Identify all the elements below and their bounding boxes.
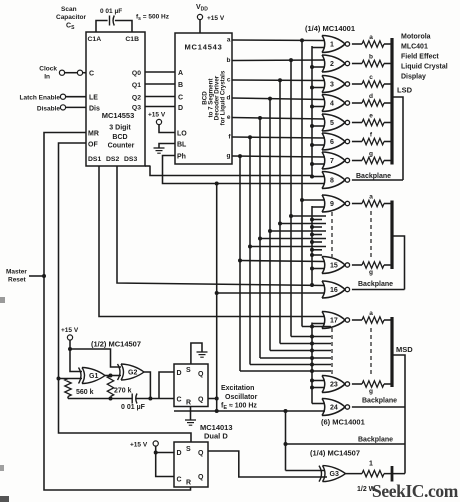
svg-text:D: D — [177, 450, 182, 457]
svg-text:Scan: Scan — [61, 6, 77, 13]
svg-text:Disable: Disable — [37, 106, 61, 113]
wire G1 output — [105, 375, 121, 377]
dashed hidden gates group3 — [331, 328, 333, 376]
wire segment a vertical drop — [301, 40, 303, 326]
wire gate 5 lower input — [312, 125, 325, 127]
svg-text:D: D — [177, 370, 182, 377]
svg-text:DS2: DS2 — [106, 156, 119, 163]
node hidden gate 10 segment — [289, 214, 293, 218]
wire segment e MSD input — [260, 357, 331, 359]
svg-text:3: 3 — [330, 82, 334, 89]
svg-text:DS3: DS3 — [124, 156, 137, 163]
wire gate 5 output — [352, 122, 362, 124]
svg-text:for Liquid Crystals: for Liquid Crystals — [220, 70, 227, 125]
svg-text:Q2: Q2 — [132, 95, 141, 102]
wire disable — [66, 106, 87, 108]
resistor segment g MSD — [362, 381, 384, 387]
wire FF1 R to ground — [190, 407, 192, 421]
node backplane branch — [284, 442, 288, 446]
svg-text:d: d — [369, 93, 373, 100]
XOR gate G2 — [118, 364, 121, 380]
svg-text:Counter: Counter — [108, 143, 135, 150]
svg-text:In: In — [44, 74, 50, 81]
wire DS3 select — [145, 165, 151, 167]
svg-text:+15 V: +15 V — [61, 327, 79, 334]
scan artifact 3 — [0, 496, 9, 502]
wire gate 3 lower input — [312, 87, 325, 89]
wire osc rail — [68, 398, 132, 400]
NOR gate 2 — [322, 55, 325, 72]
svg-text:7: 7 — [330, 158, 334, 165]
flip-flop FF2 box — [174, 442, 208, 487]
scan artifact 2 — [0, 465, 4, 471]
wire segment d vertical drop — [269, 99, 271, 351]
wire segment f vertical drop — [249, 137, 251, 364]
node gate 2 lower input — [310, 65, 314, 69]
svg-text:1: 1 — [369, 461, 373, 468]
wire gate 6 output — [352, 141, 362, 143]
wire BL to ground — [159, 144, 175, 149]
svg-text:Q3: Q3 — [132, 105, 141, 112]
svg-text:C1B: C1B — [125, 36, 139, 43]
node segment a drop — [300, 38, 304, 42]
wire resistor g2 to bus — [384, 264, 392, 266]
svg-text:Ph: Ph — [177, 154, 186, 161]
wire hidden gate 10 segment input — [291, 215, 326, 217]
svg-text:MC14543: MC14543 — [185, 43, 223, 52]
node hidden gate 13 segment — [258, 237, 262, 241]
svg-text:Backplane: Backplane — [362, 398, 397, 405]
wire +15 to node — [69, 340, 71, 349]
resistor 270k — [107, 376, 113, 397]
svg-text:C: C — [177, 477, 182, 484]
wire segment a MSD input — [302, 326, 331, 328]
dashed hidden resistors group2 — [370, 211, 372, 258]
wire MR rail — [44, 133, 191, 491]
resistor segment a MSD — [362, 317, 384, 323]
wire Ph line — [163, 156, 326, 184]
svg-text:2: 2 — [330, 61, 334, 68]
NOR gate 24 — [322, 399, 325, 416]
wire gate 6 lower input — [312, 144, 325, 146]
wire gate 2 lower input — [312, 66, 325, 68]
svg-text:23: 23 — [330, 382, 338, 389]
svg-text:5: 5 — [330, 120, 334, 127]
NOR gate 3 — [322, 76, 325, 93]
svg-text:Liquid Crystal: Liquid Crystal — [401, 64, 448, 71]
osc +15 terminal — [67, 335, 72, 340]
svg-text:Capacitor: Capacitor — [56, 14, 86, 21]
node hidden gate select 2 — [310, 225, 314, 229]
resistor 1 ohm — [362, 470, 384, 476]
wire segment f — [232, 137, 325, 138]
svg-text:c: c — [369, 74, 373, 81]
node excitation to backplane drop — [284, 409, 288, 413]
node segment a MSD select — [310, 325, 314, 329]
svg-text:(1/2) MC14507: (1/2) MC14507 — [91, 340, 141, 349]
resistor segment e LSD — [362, 119, 384, 125]
svg-text:Dual D: Dual D — [204, 432, 228, 441]
ground FF1 S — [197, 351, 208, 353]
svg-text:b: b — [227, 57, 231, 64]
clock terminal 2 — [77, 70, 82, 75]
dashed hidden resistors group3 — [370, 328, 372, 377]
svg-text:a: a — [227, 37, 231, 44]
svg-text:(6) MC14001: (6) MC14001 — [321, 418, 365, 427]
node gate 23 lower input — [310, 386, 314, 390]
wire gate 23 lower input — [312, 387, 325, 389]
wire gate 15 lower input — [312, 268, 325, 270]
wire C1A to capacitor — [96, 21, 108, 33]
node 270k rail — [109, 397, 113, 401]
wire resistor g3 to bus — [384, 383, 392, 385]
node FF1 Qbar — [215, 397, 219, 401]
node gate 23 upper input — [310, 379, 314, 383]
resistor segment a LSD — [362, 41, 384, 47]
svg-text:MLC401: MLC401 — [401, 44, 428, 51]
wire segment b MSD input — [291, 336, 331, 338]
svg-text:R: R — [186, 400, 191, 407]
svg-text:C: C — [89, 71, 94, 78]
decoder U2 MC14543 box — [175, 33, 232, 164]
node hidden gate select 4 — [310, 240, 314, 244]
svg-text:Latch Enable: Latch Enable — [20, 95, 61, 102]
wire G2 output — [144, 372, 150, 399]
svg-text:BCD: BCD — [112, 134, 127, 141]
svg-text:+15 V: +15 V — [148, 112, 166, 119]
svg-text:Master: Master — [6, 269, 27, 276]
svg-text:Backplane: Backplane — [356, 173, 391, 180]
wire OF to G1 lower input — [59, 378, 83, 380]
svg-text:24: 24 — [330, 405, 338, 412]
wire segment b vertical drop — [290, 60, 292, 336]
node hidden gate select 3 — [310, 233, 314, 237]
wire bottom backplane — [286, 443, 406, 445]
node hidden gate select 6 — [310, 253, 314, 257]
svg-text:Field Effect: Field Effect — [401, 54, 439, 61]
wire resistor a3 to bus — [384, 319, 392, 321]
svg-text:a: a — [369, 194, 373, 201]
wire DS1 select — [99, 166, 325, 317]
node DS2 to group2 vertical — [310, 283, 314, 287]
svg-text:LE: LE — [89, 95, 98, 102]
svg-text:C: C — [177, 397, 182, 404]
wire segment e — [232, 118, 325, 120]
node segment b drop — [289, 58, 293, 62]
wire segment f MSD input — [250, 364, 331, 366]
wire segment c vertical drop — [279, 80, 281, 343]
svg-text:e: e — [369, 113, 373, 120]
wire resistor f to bus — [384, 141, 392, 143]
node gate 15 lower input — [310, 267, 314, 271]
svg-text:S: S — [186, 367, 191, 374]
wire resistor b to bus — [384, 63, 392, 65]
wire gate 15 output — [352, 264, 362, 266]
wire gate 7 output — [352, 160, 362, 162]
wire digit2 backplane pointer — [392, 236, 405, 290]
wire segment a — [232, 39, 325, 42]
svg-text:+15 V: +15 V — [207, 15, 225, 22]
NOR gate 6 — [322, 133, 325, 150]
wire hidden gate 13 segment input — [260, 238, 326, 240]
svg-text:g: g — [227, 153, 231, 160]
wire +15 to G1 input — [70, 349, 82, 372]
svg-text:3 Digit: 3 Digit — [109, 125, 131, 132]
wire LSD backplane pointer — [392, 97, 403, 180]
svg-text:LO: LO — [177, 131, 187, 138]
wire gate 2 output — [352, 63, 362, 65]
svg-text:Oscillator: Oscillator — [225, 394, 258, 401]
NOR gate 8 — [322, 172, 325, 189]
wire FF1 S to ground — [191, 343, 202, 364]
svg-text:G2: G2 — [128, 370, 137, 377]
node G2 cap junction — [148, 397, 152, 401]
wire segment e vertical drop — [259, 118, 261, 358]
NOR gate 5 — [322, 114, 325, 131]
svg-text:g: g — [369, 388, 373, 395]
scan artifact 1 — [0, 297, 5, 303]
svg-text:Q: Q — [198, 450, 204, 457]
wire gate 4 lower input — [312, 106, 325, 108]
svg-text:DS1: DS1 — [88, 156, 101, 163]
digit2 segment bus — [390, 201, 393, 270]
wire gate 17 output — [352, 319, 362, 321]
wire resistor to backplane corner — [384, 473, 405, 475]
svg-text:Reset: Reset — [8, 277, 27, 284]
node master reset — [42, 274, 46, 278]
svg-text:Q1: Q1 — [132, 82, 141, 89]
svg-text:15: 15 — [330, 263, 338, 270]
resistor segment c LSD — [362, 81, 384, 87]
svg-text:Q: Q — [198, 474, 204, 481]
NOR gate 4 — [322, 95, 325, 112]
wire hidden gate select stub 1 — [312, 219, 322, 221]
wire Q3-D — [145, 106, 175, 108]
wire gate 9 lower input — [312, 206, 325, 208]
wire gate 17 lower input — [312, 323, 325, 325]
svg-text:Q: Q — [198, 397, 204, 404]
svg-text:A: A — [178, 70, 183, 77]
LO terminal — [156, 119, 161, 124]
wire Q0-A — [145, 71, 175, 73]
FF2 +15 terminal — [153, 441, 158, 446]
flip-flop FF1 box — [174, 364, 208, 407]
wire hidden gate 12 segment input — [270, 230, 326, 232]
VDD terminal — [197, 14, 202, 19]
wire segment g MSD input — [240, 370, 331, 372]
node gate 8 upper input — [310, 175, 314, 179]
MSD segment bus — [390, 317, 393, 387]
svg-text:(1/4) MC14507: (1/4) MC14507 — [310, 449, 360, 458]
svg-text:BL: BL — [177, 142, 187, 149]
node FF2 +15 — [154, 451, 158, 455]
node Ph to gate 16 — [215, 291, 219, 295]
node segment c drop — [278, 78, 282, 82]
node segment b MSD select — [310, 335, 314, 339]
wire latch enable — [66, 96, 87, 98]
latch terminal — [60, 94, 65, 99]
wire hidden gate select stub 4 — [312, 241, 322, 243]
wire DS select vertical group2 — [311, 206, 313, 285]
wire segment d MSD input — [270, 350, 331, 352]
node gate 7 lower input — [310, 162, 314, 166]
wire segment d — [232, 98, 325, 100]
svg-text:6: 6 — [330, 139, 334, 146]
wire Q1-B — [145, 83, 175, 85]
node osc +15 — [68, 347, 72, 351]
XOR gate G3 — [319, 466, 322, 482]
resistor segment f LSD — [362, 138, 384, 144]
wire segment c — [232, 79, 325, 82]
wire gate 23 upper input — [312, 380, 325, 382]
svg-text:MR: MR — [88, 131, 99, 138]
wire hidden gate select stub 3 — [312, 234, 322, 236]
wire DS select vertical group3 — [311, 323, 313, 404]
wire FF2 +15 to C — [156, 453, 174, 477]
resistor segment d LSD — [362, 100, 384, 106]
NOR gate 7 — [322, 152, 325, 169]
wire DS2 select — [117, 166, 325, 286]
svg-text:a: a — [369, 34, 373, 41]
capacitor 0.01uF osc — [131, 394, 133, 404]
wire cap node to D — [159, 372, 174, 399]
wire hidden gate select stub 6 — [312, 254, 322, 256]
wire segment b — [232, 59, 325, 62]
wire resistor d to bus — [384, 102, 392, 104]
node segment g MSD select — [310, 369, 314, 373]
svg-text:D: D — [178, 105, 183, 112]
wire osc rail2 — [137, 398, 175, 400]
wire FF2 +15 to D — [156, 446, 174, 453]
svg-text:Q: Q — [198, 371, 204, 378]
svg-text:+15 V: +15 V — [130, 442, 148, 449]
svg-text:C: C — [178, 95, 183, 102]
svg-text:Dis: Dis — [89, 106, 100, 113]
counter U1 MC14553 box — [86, 32, 145, 166]
wire gate 24 output backplane — [352, 406, 405, 408]
svg-text:C1A: C1A — [88, 36, 102, 43]
wire gate 16 output backplane — [352, 289, 405, 291]
wire resistor a to bus — [384, 43, 392, 45]
resistor segment g LSD — [362, 157, 384, 163]
wire gate 24 upper input — [312, 403, 325, 405]
wire hidden gate select stub 5 — [312, 249, 322, 251]
wire gate 4 output — [352, 102, 362, 104]
XOR gate G1 — [79, 368, 82, 384]
wire gate 8 output backplane — [352, 179, 403, 181]
wire excitation to gate 24 — [174, 410, 325, 412]
NOR gate 17 — [322, 312, 325, 329]
wire capacitor to C1B — [115, 21, 132, 33]
svg-text:4: 4 — [330, 101, 334, 108]
resistor segment g digit2 — [362, 262, 384, 268]
svg-text:16: 16 — [330, 287, 338, 294]
node excitation junction — [215, 409, 219, 413]
svg-text:d: d — [227, 95, 231, 102]
ground FF1 R — [185, 419, 196, 421]
node hidden gate 12 segment — [268, 229, 272, 233]
wire resistor g to bus — [384, 160, 392, 162]
node hidden gate 11 segment — [278, 222, 282, 226]
svg-text:G1: G1 — [89, 373, 98, 380]
resistor segment a digit2 — [362, 200, 384, 206]
ground BL — [154, 147, 165, 149]
wire resistor c to bus — [384, 83, 392, 85]
svg-text:R: R — [186, 480, 191, 487]
LSD segment bus — [390, 38, 393, 165]
node gate 5 lower input — [310, 124, 314, 128]
node gate 3 lower input — [310, 86, 314, 90]
node segment g drop — [238, 154, 242, 158]
node segment c MSD select — [310, 342, 314, 346]
svg-text:B: B — [178, 82, 183, 89]
NOR gate 23 — [322, 376, 325, 393]
resistor 560k — [65, 379, 71, 397]
NOR gate 1 — [322, 36, 325, 53]
wire gate 1 lower input — [312, 47, 325, 49]
node segment d MSD select — [310, 349, 314, 353]
wire gate 3 output — [352, 83, 362, 85]
svg-text:c: c — [227, 77, 231, 84]
node OF to G1 — [57, 377, 61, 381]
svg-text:SeekIC.com: SeekIC.com — [372, 481, 459, 501]
svg-text:1: 1 — [330, 42, 334, 49]
NOR gate 15 — [322, 257, 325, 274]
node segment g gate 15 — [238, 259, 242, 263]
svg-text:17: 17 — [330, 318, 338, 325]
svg-text:b: b — [369, 54, 373, 61]
NOR gate 16 — [322, 281, 325, 298]
wire hidden gate select stub 2 — [312, 226, 322, 228]
wire clock — [65, 72, 78, 74]
svg-text:Clock: Clock — [39, 66, 57, 73]
wire gate 7 lower input — [312, 163, 325, 165]
wire MSD backplane pointer — [392, 355, 405, 474]
wire FF2 Q to G3 — [208, 451, 327, 477]
wire segment g to gate 15 — [240, 261, 325, 262]
wire master reset stub — [29, 275, 44, 277]
wire resistor a2 to bus — [384, 203, 392, 205]
node hidden gate 14 segment — [248, 245, 252, 249]
wire 560k to rail — [67, 397, 69, 399]
wire LO — [159, 125, 175, 133]
dashed hidden gates group2 — [331, 212, 333, 257]
svg-text:9: 9 — [330, 201, 334, 208]
wire segment g vertical drop — [239, 156, 241, 371]
wire G3 output — [346, 473, 363, 475]
node segment d drop — [268, 97, 272, 101]
svg-text:S: S — [186, 446, 191, 453]
node segment f drop — [248, 135, 252, 139]
svg-text:560 k: 560 k — [76, 389, 94, 396]
svg-text:MC14553: MC14553 — [102, 111, 135, 120]
svg-text:(1/4) MC14001: (1/4) MC14001 — [305, 24, 355, 33]
node segment a gate 9 — [300, 198, 304, 202]
wire hidden gate 11 segment input — [280, 223, 326, 225]
svg-text:Backplane: Backplane — [358, 437, 393, 444]
capacitor CS — [109, 16, 111, 26]
svg-text:Motorola: Motorola — [401, 34, 431, 41]
node segment f MSD select — [310, 363, 314, 367]
wire hidden gate 14 segment input — [250, 246, 326, 248]
wire segment c MSD input — [280, 343, 331, 345]
svg-text:0 01 µF: 0 01 µF — [121, 404, 146, 411]
svg-text:0 01 µF: 0 01 µF — [100, 8, 122, 15]
wire Ph vertical — [216, 184, 218, 412]
node segment e MSD select — [310, 356, 314, 360]
node hidden gate select 5 — [310, 248, 314, 252]
svg-text:Display: Display — [401, 74, 426, 81]
